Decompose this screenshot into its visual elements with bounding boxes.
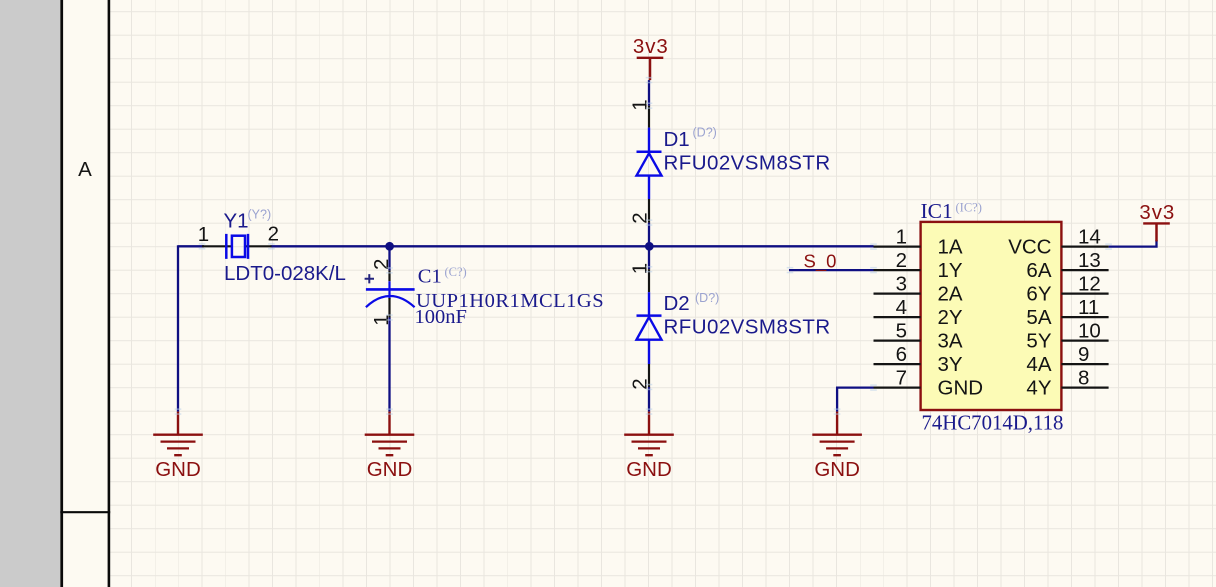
IC1 pin 9 xyxy=(1061,363,1108,365)
IC1 pin 13 xyxy=(1061,269,1108,271)
wire 3v3 to D1 xyxy=(648,80,650,106)
diode D2 xyxy=(637,269,662,387)
svg-text:10: 10 xyxy=(1078,319,1101,342)
wire D2 to GND xyxy=(648,387,650,412)
junction at C1 tap xyxy=(385,242,394,251)
svg-text:3A: 3A xyxy=(938,330,963,353)
svg-text:4Y: 4Y xyxy=(1026,377,1051,400)
svg-text:11: 11 xyxy=(1078,296,1099,319)
svg-text:3Y: 3Y xyxy=(938,353,963,376)
junction at diode column xyxy=(645,242,654,251)
op-amp U1 : IC1 74HC7014 body xyxy=(921,222,1062,410)
ground (D2) xyxy=(624,412,674,481)
svg-text:3: 3 xyxy=(896,272,907,295)
svg-text:D2: D2 xyxy=(664,292,690,315)
svg-text:6: 6 xyxy=(896,343,907,366)
svg-text:100nF: 100nF xyxy=(415,306,467,328)
capacitor C1 xyxy=(365,270,415,317)
svg-text:D1: D1 xyxy=(664,128,690,151)
svg-text:C1: C1 xyxy=(418,266,442,288)
IC1 pin 4 xyxy=(874,316,921,318)
svg-text:14: 14 xyxy=(1078,225,1101,248)
svg-text:6A: 6A xyxy=(1026,259,1051,282)
svg-text:9: 9 xyxy=(1078,343,1089,366)
svg-text:13: 13 xyxy=(1078,249,1101,272)
svg-text:1Y: 1Y xyxy=(938,259,963,282)
svg-text:GND: GND xyxy=(938,377,984,400)
sheet border inner line xyxy=(108,0,111,587)
wire IC pin14 to 3v3 xyxy=(1109,240,1157,248)
border row divider xyxy=(60,511,110,513)
svg-text:74HC7014D,118: 74HC7014D,118 xyxy=(922,412,1064,435)
ground (crystal) xyxy=(153,412,203,481)
svg-text:VCC: VCC xyxy=(1008,236,1051,259)
power port 3v3 (IC pin14) xyxy=(1155,223,1158,241)
ground (IC pin7) xyxy=(812,412,862,481)
svg-text:2Y: 2Y xyxy=(938,306,963,329)
wire IC pin7 to GND xyxy=(836,388,874,412)
svg-text:(D?): (D?) xyxy=(693,126,717,140)
svg-text:Y1: Y1 xyxy=(224,210,249,233)
wire end markers xyxy=(199,243,206,249)
wire net S_0 to IC pin2 xyxy=(789,269,874,271)
IC1 pin 6 xyxy=(874,363,921,365)
svg-text:4A: 4A xyxy=(1026,353,1051,376)
svg-text:1A: 1A xyxy=(938,236,963,259)
svg-text:(IC?): (IC?) xyxy=(956,201,982,215)
svg-text:5: 5 xyxy=(896,319,907,342)
wire main horizontal Y1 to IC pin1 xyxy=(271,245,874,247)
svg-text:1: 1 xyxy=(896,225,907,248)
IC1 pin 10 xyxy=(1061,340,1108,342)
svg-text:(D?): (D?) xyxy=(695,291,719,305)
diode D1 xyxy=(637,106,662,223)
svg-text:(C?): (C?) xyxy=(445,265,467,279)
svg-text:A: A xyxy=(78,158,92,181)
IC1 pin 11 xyxy=(1061,316,1108,318)
IC1 pin 8 xyxy=(1061,387,1108,389)
wire C1 bottom to GND xyxy=(388,318,390,412)
svg-text:2: 2 xyxy=(268,222,279,245)
IC1 pin 1 xyxy=(874,246,921,248)
IC1 pin 5 xyxy=(874,340,921,342)
IC1 pin 2 xyxy=(874,269,921,271)
IC1 pin 14 xyxy=(1061,246,1108,248)
sheet border outer line xyxy=(60,0,63,587)
crystal Y1 xyxy=(202,234,272,259)
svg-text:12: 12 xyxy=(1078,272,1101,295)
wire junction to D2 xyxy=(648,246,650,269)
svg-text:IC1: IC1 xyxy=(921,199,953,223)
svg-text:2A: 2A xyxy=(938,283,963,306)
IC1 pin 7 xyxy=(874,387,921,389)
IC1 pin 3 xyxy=(874,293,921,295)
svg-text:1: 1 xyxy=(628,263,651,274)
svg-text:5A: 5A xyxy=(1026,306,1051,329)
svg-text:4: 4 xyxy=(896,296,907,319)
svg-text:5Y: 5Y xyxy=(1026,330,1051,353)
wire D1 to junction xyxy=(648,223,650,247)
svg-text:1: 1 xyxy=(198,223,209,246)
svg-text:(Y?): (Y?) xyxy=(248,207,272,221)
svg-text:6Y: 6Y xyxy=(1026,283,1051,306)
svg-text:S_0: S_0 xyxy=(804,251,837,273)
svg-text:2: 2 xyxy=(628,212,651,223)
svg-text:7: 7 xyxy=(896,366,907,389)
svg-text:8: 8 xyxy=(1078,366,1089,389)
svg-text:1: 1 xyxy=(628,99,651,110)
ground (C1) xyxy=(365,412,415,481)
svg-text:RFU02VSM8STR: RFU02VSM8STR xyxy=(664,315,831,338)
IC1 pin 12 xyxy=(1061,293,1108,295)
power port 3v3 (diode column) xyxy=(649,58,652,80)
wire crystal-left to GND drop xyxy=(178,245,204,411)
svg-text:2: 2 xyxy=(896,249,907,272)
svg-text:RFU02VSM8STR: RFU02VSM8STR xyxy=(664,152,831,175)
wire C1 top stub xyxy=(388,246,390,270)
svg-text:LDT0-028K/L: LDT0-028K/L xyxy=(224,262,346,285)
